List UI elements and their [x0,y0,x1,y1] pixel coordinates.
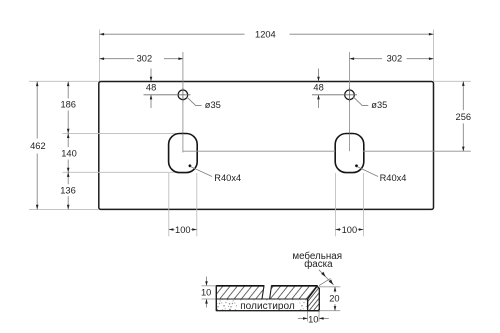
svg-text:302: 302 [387,54,403,64]
svg-text:полистирол: полистирол [240,301,295,312]
svg-text:100: 100 [175,225,191,235]
label ø35 right [353,97,387,110]
extension line top-left (for 462) [29,80,99,82]
dimension 48 left [146,69,156,109]
svg-text:302: 302 [137,54,153,64]
dimension 302 left [100,52,184,64]
section top layer left piece (hatched) [216,286,264,299]
svg-text:20: 20 [329,294,339,304]
svg-text:10: 10 [308,314,318,324]
dimension 462 [29,82,47,210]
extension line chamfer corner right (for 20) [319,286,340,288]
label furniture chamfer (мебельная фаска) [292,251,342,286]
svg-text:256: 256 [456,112,472,122]
extension line oval-bottom level (for 140/136) [63,171,184,173]
svg-text:462: 462 [30,141,46,151]
svg-text:ø35: ø35 [205,100,221,110]
centerline vertical inside right oval [349,134,351,152]
cutout oval right [335,134,364,173]
svg-text:1204: 1204 [255,30,276,40]
dimension 302 right [350,52,434,64]
centerline vertical inside left oval [182,134,184,153]
dimension 10 section left [201,277,215,308]
label ø35 left [187,97,221,110]
extension line below left oval - right side (for 100) [196,173,198,236]
section edge piece (hatched, chamfer) [308,286,320,311]
extension line right edge up (for 1204/302) [433,30,435,82]
dimension 100 right [335,225,363,235]
extension line bottom-left (for 462) [29,208,99,210]
dimension 100 left [169,225,197,235]
label R40x4 right [355,164,406,182]
extension line below right oval - right side (for 100) [362,173,364,236]
svg-text:R40x4: R40x4 [380,173,407,183]
svg-text:ø35: ø35 [371,100,387,110]
label R40x4 left [189,164,242,182]
svg-text:48: 48 [146,83,156,93]
svg-text:136: 136 [60,186,76,196]
hole ø35 left [144,88,191,102]
centerline vertical right hole [349,52,351,151]
dimension 10 section bottom [298,311,329,324]
hole ø35 right [312,88,357,102]
svg-text:48: 48 [313,83,323,93]
centerline horizontal right segment [363,150,471,152]
centerline horizontal left segment [183,150,335,152]
svg-text:фаска: фаска [304,259,333,270]
extension line oval-top level (for 186/140) [63,132,184,134]
section bar left edge [215,286,217,311]
section top layer right piece (hatched, mitered end) [270,286,318,299]
svg-text:140: 140 [61,149,77,159]
extension line below right oval - left side (for 100) [334,173,336,236]
section polystyrene layer (stippled) [216,299,307,311]
dimension 48 right [313,69,323,109]
extension line top-right (for 256) [434,80,471,82]
extension line below left oval - left side (for 100) [168,173,170,236]
dimension 1204 [100,28,434,40]
cutout oval left [169,134,198,173]
section bar bottom edge [216,310,319,312]
dimension 256 [455,81,473,151]
countertop outline [99,82,434,210]
extension line left edge up (for 1204/302) [99,30,101,82]
svg-text:100: 100 [342,225,358,235]
dimension 20 section right [328,287,343,311]
svg-text:R40x4: R40x4 [214,173,241,183]
extension line bottom right (for 20) [319,310,340,312]
svg-text:10: 10 [201,288,211,298]
centerline vertical left hole [182,52,184,153]
dimension chain 186/140/136 [60,82,79,210]
svg-text:186: 186 [60,100,76,110]
polystyrene label [237,301,300,312]
